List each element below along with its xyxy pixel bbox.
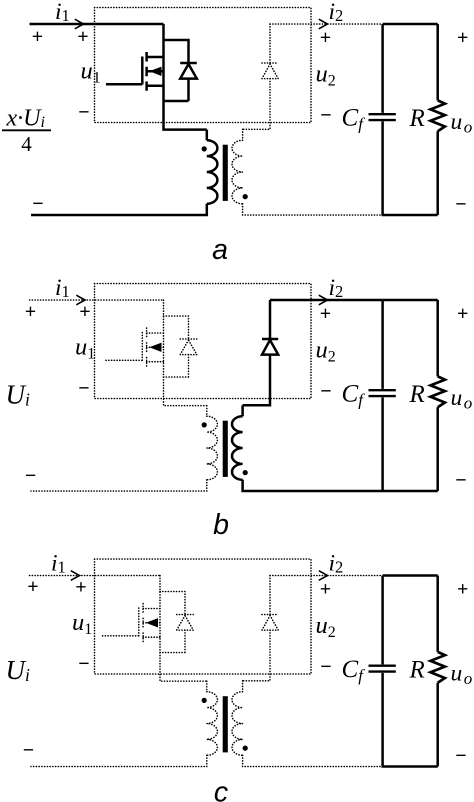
- svg-text:+: +: [77, 26, 88, 48]
- svg-text:c: c: [214, 777, 228, 802]
- svg-text:R: R: [409, 105, 425, 132]
- svg-text:+: +: [79, 301, 90, 323]
- svg-text:−: −: [78, 377, 89, 399]
- svg-text:+: +: [457, 578, 468, 600]
- svg-text:+: +: [320, 27, 331, 49]
- svg-text:+: +: [457, 27, 468, 49]
- svg-text:+: +: [27, 576, 38, 598]
- svg-text:−: −: [455, 745, 466, 767]
- svg-text:b: b: [213, 509, 229, 541]
- svg-text:−: −: [25, 465, 36, 487]
- svg-text:−: −: [78, 653, 89, 675]
- svg-text:−: −: [320, 380, 331, 402]
- svg-text:+: +: [320, 578, 331, 600]
- svg-text:+: +: [32, 26, 43, 48]
- svg-text:4: 4: [21, 132, 32, 156]
- svg-text:a: a: [212, 234, 228, 266]
- svg-text:x·Ui: x·Ui: [6, 105, 45, 131]
- svg-text:R: R: [409, 657, 425, 684]
- svg-text:+: +: [457, 303, 468, 325]
- svg-text:−: −: [32, 193, 43, 215]
- svg-text:−: −: [23, 739, 34, 761]
- svg-text:+: +: [75, 576, 86, 598]
- svg-text:+: +: [25, 301, 36, 323]
- svg-text:+: +: [320, 303, 331, 325]
- svg-text:R: R: [409, 381, 425, 408]
- svg-text:−: −: [455, 193, 466, 215]
- svg-text:−: −: [455, 469, 466, 491]
- svg-text:−: −: [78, 101, 89, 123]
- svg-text:−: −: [320, 656, 331, 678]
- svg-text:−: −: [320, 104, 331, 126]
